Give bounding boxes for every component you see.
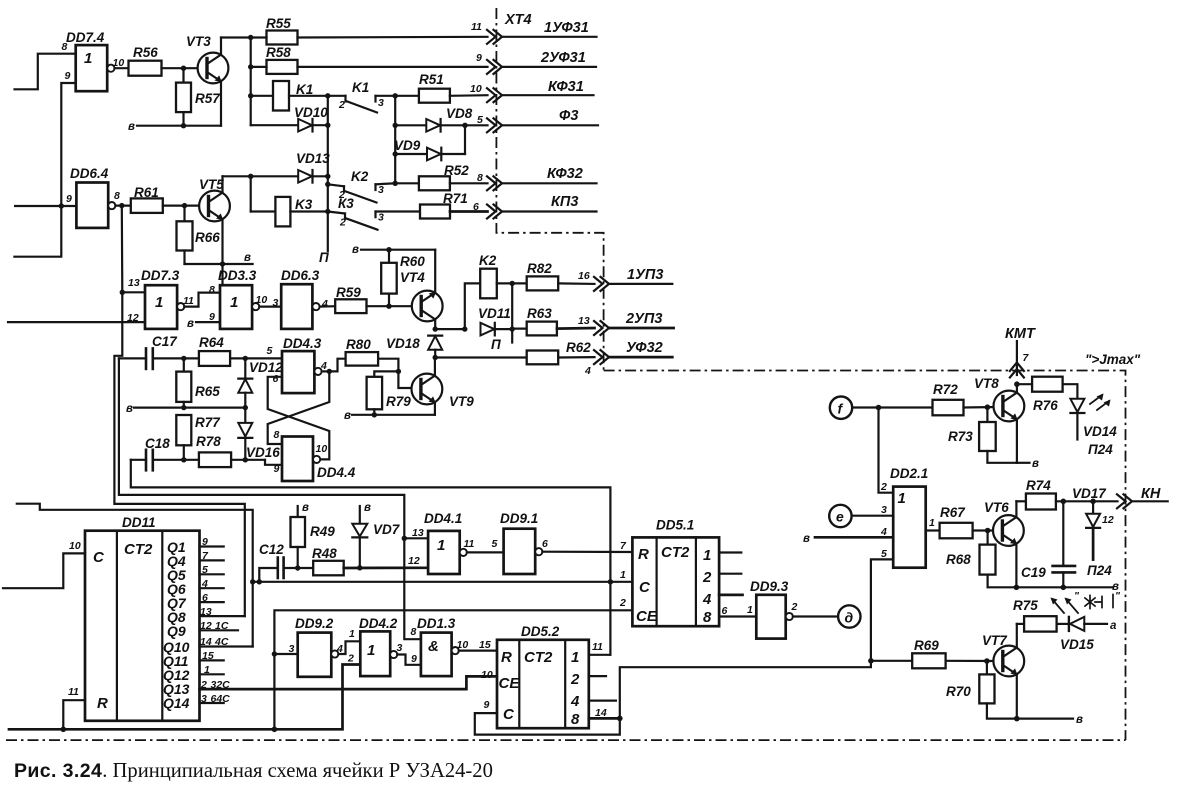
svg-text:C19: C19 [1021, 565, 1046, 580]
svg-text:CE: CE [636, 608, 658, 625]
svg-text:CT2: CT2 [661, 544, 690, 561]
pin stubs DD5.1 outputs 1,2,4 [719, 551, 741, 553]
svg-text:КФ31: КФ31 [548, 79, 584, 95]
wire VT8 emitter to в [1017, 458, 1039, 470]
svg-text:П: П [319, 250, 329, 265]
capacitor C17 [119, 334, 184, 369]
svg-text:12: 12 [408, 555, 420, 567]
svg-text:3: 3 [378, 184, 384, 196]
svg-text:9: 9 [209, 311, 215, 323]
resistor R63 [527, 306, 595, 335]
LED VD15 [1060, 617, 1117, 652]
svg-text:12: 12 [1102, 514, 1114, 526]
svg-text:1: 1 [367, 642, 375, 659]
svg-text:DD9.1: DD9.1 [500, 511, 538, 526]
svg-text:R75: R75 [1013, 598, 1038, 613]
svg-text:1: 1 [84, 50, 92, 67]
wire в mid bias [126, 403, 248, 415]
svg-text:DD7.4: DD7.4 [66, 30, 105, 45]
svg-text:13: 13 [128, 277, 140, 289]
svg-text:R82: R82 [527, 261, 552, 276]
svg-text:6: 6 [473, 201, 479, 213]
wire DD2.1 out to R67 [926, 529, 940, 531]
svg-text:3: 3 [881, 504, 887, 516]
resistor R59 [335, 285, 412, 313]
svg-text:CE: CE [499, 675, 521, 692]
svg-text:1: 1 [898, 490, 906, 507]
svg-text:2: 2 [338, 99, 345, 111]
wire в to DD2.1 pin 4 [803, 533, 893, 545]
svg-text:64C: 64C [211, 693, 231, 705]
svg-text:VD11: VD11 [478, 306, 511, 321]
diode VD10 [251, 105, 329, 132]
svg-text:R: R [97, 695, 108, 712]
gate DD3.3 [209, 268, 267, 329]
node K1 contact / R51 / VD8 [393, 93, 398, 98]
svg-text:DD4.2: DD4.2 [359, 616, 398, 631]
wire DD6.3 out to R59 [320, 305, 336, 308]
resistor R62 [527, 340, 595, 364]
node R80 / R79 / VT9 base [396, 369, 401, 374]
contact K1 [328, 80, 395, 113]
svg-text:2: 2 [347, 653, 354, 665]
gate DD9.2 [289, 616, 344, 677]
svg-text:8: 8 [411, 626, 417, 638]
svg-text:DD5.1: DD5.1 [656, 518, 694, 533]
wire VT7 collector to R75 [1017, 623, 1024, 625]
svg-text:VD10: VD10 [294, 105, 328, 120]
svg-text:1УФ31: 1УФ31 [544, 20, 589, 36]
svg-text:в: в [126, 403, 133, 415]
svg-text:R80: R80 [346, 337, 371, 352]
svg-text:R73: R73 [948, 429, 973, 444]
svg-text:C: C [639, 579, 651, 596]
svg-text:в: в [128, 121, 135, 133]
svg-text:8: 8 [571, 711, 580, 728]
resistor R52 [395, 163, 487, 190]
wire DD6.4 out to R61 [115, 205, 130, 207]
connector XT4 pin 6 chevron [487, 205, 502, 219]
svg-text:VT5: VT5 [199, 177, 224, 192]
transistor VT5 [199, 176, 230, 264]
diode VD11 [478, 306, 512, 335]
connector XT4 pin 10 chevron [487, 88, 502, 102]
node VT8 base / R73 [985, 404, 991, 410]
node R69 tap [868, 658, 874, 664]
wire DD9.2 pin 3 [274, 653, 297, 655]
svg-text:КФ32: КФ32 [547, 166, 583, 182]
resistor R57 [176, 68, 221, 126]
svg-text:13: 13 [412, 527, 424, 539]
resistor R66 [177, 206, 221, 264]
svg-text:1: 1 [703, 547, 711, 564]
svg-text:DD2.1: DD2.1 [890, 466, 928, 481]
wire DD5.2 C input wrap to out8 [475, 713, 620, 735]
resistor R69 [912, 638, 996, 668]
gate DD6.3 [273, 268, 329, 329]
svg-text:2: 2 [702, 569, 712, 586]
node VD11 anode riser [462, 326, 467, 331]
resistor R76 [1017, 377, 1078, 413]
wire Q13 to DD5.2 CE [200, 676, 498, 689]
transistor VT9 [412, 358, 475, 415]
resistor R78 [196, 434, 265, 467]
pin stub DD5.2 out1 to C18 net [589, 654, 611, 656]
svg-text:5: 5 [881, 548, 887, 560]
svg-text:9: 9 [274, 463, 280, 475]
wire to R79 top [374, 371, 398, 376]
wire VT3 collector to bus [221, 36, 251, 38]
resistor R61 [131, 185, 203, 213]
svg-text:VD17: VD17 [1072, 486, 1107, 501]
svg-text:C: C [93, 549, 105, 566]
node C19 tap [1061, 499, 1067, 505]
svg-text:15: 15 [202, 650, 214, 662]
svg-text:П24: П24 [1087, 563, 1112, 578]
resistor R73 [948, 407, 1017, 463]
svg-text:4: 4 [880, 526, 887, 538]
svg-text:3: 3 [201, 693, 207, 705]
wire УФ32 [609, 356, 672, 359]
svg-text:10: 10 [470, 83, 482, 95]
resistor R70 [946, 661, 1073, 719]
svg-text:1: 1 [437, 537, 445, 554]
svg-text:R51: R51 [419, 72, 444, 87]
node VD8 cathode / VD9 [462, 123, 467, 128]
wire emitter bias в [128, 121, 221, 133]
svg-text:9: 9 [476, 52, 482, 64]
svg-text:VD8: VD8 [446, 106, 473, 121]
svg-text:9: 9 [484, 699, 490, 711]
svg-text:9: 9 [65, 70, 71, 82]
wire f to R72 [852, 406, 932, 408]
wire RS cross-coupling B (DD4.3 pin 6 to DD4.4 out) [268, 377, 330, 460]
wire DD11 C input [3, 540, 85, 588]
wire Q10 to stub net [200, 645, 253, 647]
node DD5.1 C tap [608, 579, 613, 584]
diode VD16 [238, 408, 280, 460]
resistor R68 [946, 531, 1113, 588]
node DD7.3 pin13 [120, 290, 125, 295]
svg-text:DD4.3: DD4.3 [283, 336, 322, 351]
svg-text:Q14: Q14 [163, 695, 190, 711]
svg-text:10: 10 [69, 540, 81, 552]
diode VD17 [1086, 501, 1112, 578]
svg-text:1УП3: 1УП3 [627, 267, 663, 283]
wire VT4 emitter to VD11 [435, 328, 465, 330]
svg-text:">Jmax": ">Jmax" [1085, 352, 1141, 367]
transistor VT7 [982, 624, 1024, 719]
transistor VT4 [400, 250, 443, 329]
resistor R67 [940, 505, 996, 538]
svg-text:4: 4 [570, 693, 580, 710]
wire input stub to DD7.4 pin 8 [15, 54, 76, 90]
wire R78 to DD4.4 pin 9 [265, 460, 282, 465]
svg-text:в: в [302, 502, 309, 514]
svg-text:R62: R62 [566, 340, 591, 355]
wire DD4.3 out to R80 [329, 359, 345, 372]
boundary dash-dot bottom [6, 739, 1126, 741]
wire RS cross-coupling A (DD4.3 out to DD4.4 pin 8) [268, 371, 330, 444]
wire DD4.1 pin13 [404, 537, 428, 539]
svg-text:XT4: XT4 [504, 12, 532, 28]
svg-text:R68: R68 [946, 552, 971, 567]
svg-text:VD13: VD13 [296, 151, 330, 166]
node е terminal [829, 505, 851, 527]
connector КН chevron pin 12 [1102, 486, 1168, 526]
svg-text:1: 1 [349, 628, 355, 640]
svg-text:R57: R57 [195, 91, 221, 106]
svg-text:DD3.3: DD3.3 [218, 268, 257, 283]
transistor VT6 [984, 500, 1024, 587]
svg-text:DD6.4: DD6.4 [70, 166, 109, 181]
svg-text:K2: K2 [479, 253, 497, 268]
gate DD4.3 [267, 336, 328, 393]
diode VD18 [386, 336, 442, 358]
svg-text:CT2: CT2 [524, 649, 553, 666]
node R60 bottom / VT4 base [386, 304, 391, 309]
svg-text:11: 11 [592, 641, 603, 653]
node junction DD7.4 p9 / DD6.4 p9 [59, 203, 64, 208]
svg-text:8: 8 [274, 429, 280, 441]
svg-text:8: 8 [477, 172, 483, 184]
wire DD7.4 out to R56 [115, 67, 129, 69]
connector XT4 pin 11 chevron [487, 30, 502, 44]
svg-text:1: 1 [571, 649, 579, 666]
svg-text:УФ32: УФ32 [626, 340, 663, 356]
svg-text:1: 1 [747, 604, 753, 616]
svg-text:3: 3 [273, 297, 279, 309]
contact K2 [325, 169, 395, 203]
node VT7 base / R70 [984, 658, 990, 664]
node VT5 base / R66 [182, 203, 187, 208]
gate DD7.3 [127, 268, 194, 329]
svg-text:12: 12 [127, 312, 139, 324]
resistor R79 [367, 377, 412, 415]
wire stub input to Q10/C12 node [17, 504, 253, 647]
svg-text:15: 15 [479, 639, 491, 651]
svg-text:1: 1 [929, 517, 935, 529]
connector XT4 pin 5 chevron [487, 118, 502, 132]
svg-text:R63: R63 [527, 306, 552, 321]
svg-text:4: 4 [702, 591, 712, 608]
svg-text:Рис. 3.24. Принципиальная схем: Рис. 3.24. Принципиальная схема ячейки Р… [14, 760, 493, 782]
relay coil K1 [251, 81, 328, 111]
svg-text:2УФ31: 2УФ31 [540, 50, 586, 66]
wire CE net to DD5.1 CE [274, 610, 632, 729]
node VD10 bus [325, 123, 330, 128]
node VT7 emitter on в wire [1014, 716, 1020, 722]
svg-text:КП3: КП3 [551, 194, 578, 210]
contact K3 [328, 196, 420, 230]
svg-text:R77: R77 [195, 415, 221, 430]
svg-text:14: 14 [595, 707, 607, 719]
node VD18 / VT9 collector / П wire [433, 355, 438, 360]
svg-text:C: C [503, 706, 515, 723]
svg-text:DD4.4: DD4.4 [317, 465, 356, 480]
gate DD7.4 [62, 30, 125, 91]
node DD9.2 pin3 tap [272, 651, 277, 656]
wire DD9.2 out to DD4.2 pin 1 [338, 641, 360, 654]
svg-text:R59: R59 [336, 285, 361, 300]
svg-text:R65: R65 [195, 384, 220, 399]
svg-text:VT6: VT6 [984, 500, 1009, 515]
wire bus K1 group vertical [250, 38, 252, 126]
LED VD14 [1070, 394, 1117, 458]
svg-text:VD14: VD14 [1083, 424, 1117, 439]
svg-text:R60: R60 [400, 254, 425, 269]
connector XT4 pin 9 chevron [487, 60, 502, 74]
svg-text:DD4.1: DD4.1 [424, 511, 462, 526]
svg-text:в: в [364, 502, 371, 514]
resistor R82 [527, 261, 595, 290]
counter DD11 [85, 515, 200, 721]
svg-text:13: 13 [578, 315, 590, 327]
svg-text:2: 2 [880, 481, 887, 493]
svg-text:R49: R49 [310, 524, 335, 539]
wire Q8 to bus B [200, 615, 245, 617]
wire R63 from VD11 node [512, 328, 527, 330]
svg-text:DD6.3: DD6.3 [281, 268, 320, 283]
transistor VT3 [186, 34, 228, 126]
node DD4.1 pin13 tap [402, 536, 407, 541]
node VD13 bus [325, 174, 330, 179]
wire C17 routing path to DD4.1/DD1.3 [119, 358, 421, 639]
svg-text:K2: K2 [351, 169, 369, 184]
wire C net to DD5.1 C [253, 581, 633, 583]
wire КФ32 [502, 182, 597, 184]
svg-text:в: в [352, 244, 359, 256]
diode VD13 [223, 151, 331, 183]
svg-text:П24: П24 [1088, 442, 1113, 457]
svg-text:4: 4 [321, 298, 328, 310]
wire 2УФ31 [502, 66, 596, 68]
wire R bus bottom [9, 665, 360, 730]
counter DD5.1 [619, 518, 719, 627]
node VT6 emitter on в bus [1014, 585, 1020, 591]
wire DD9.3 out to node д [793, 615, 838, 617]
wire VT6 collector to R74 [1016, 500, 1026, 502]
wire R56 to VT3 base [162, 67, 202, 69]
svg-text:2УП3: 2УП3 [625, 311, 662, 327]
gate DD2.1 [880, 466, 935, 568]
gate DD4.2 [347, 616, 403, 676]
svg-text:VD9: VD9 [394, 138, 421, 153]
connector XT4 pin 8 chevron [487, 176, 502, 190]
svg-text:11: 11 [464, 538, 475, 550]
wire 1УП3 [609, 283, 672, 285]
svg-text:в: в [344, 410, 351, 422]
diode VD9 [394, 125, 465, 160]
diode VD7 [352, 502, 400, 571]
boundary dash-dot XT4 [496, 8, 603, 371]
node K1 bus top [325, 93, 330, 98]
svg-text:R66: R66 [195, 230, 220, 245]
connector pin 4 chevron УФ32 [594, 350, 609, 364]
svg-text:6: 6 [722, 605, 728, 617]
node DD9.2 riser on R bus [272, 727, 278, 733]
wire е to DD2.1 pin 3 [852, 515, 894, 517]
svg-text:5: 5 [202, 564, 208, 576]
wire в stub DD3.3 pin 9 [187, 318, 220, 330]
svg-text:R67: R67 [940, 505, 966, 520]
connector КМТ chevron up [1005, 326, 1036, 378]
resistor R64 [184, 335, 282, 366]
node K2 contact / R52 / VD9 [393, 181, 398, 186]
wire DD5.1 out8 to DD9.3 [719, 604, 756, 617]
photo arrows at R75 [1051, 590, 1122, 613]
wire out8 riser to DD2.1 pin5 / R69 [620, 559, 893, 718]
wire DD1.3 out to DD5.2 R [459, 649, 497, 651]
wire П to R62 [435, 337, 527, 358]
resistor R72 [933, 382, 998, 415]
wire R69 row [871, 660, 912, 662]
node VD13 left branch [248, 174, 253, 179]
svg-text:в: в [1032, 458, 1039, 470]
svg-text:4: 4 [584, 365, 591, 377]
svg-text:2: 2 [570, 671, 580, 688]
svg-text:VD16: VD16 [246, 445, 280, 460]
svg-text:R78: R78 [196, 434, 221, 449]
svg-text:3: 3 [378, 212, 384, 224]
resistor R56 [129, 45, 162, 76]
svg-text:2: 2 [619, 597, 626, 609]
svg-text:Q9: Q9 [167, 623, 186, 639]
svg-text:K3: K3 [295, 197, 313, 212]
node R64 / VD12 / DD4.3 pin5 [243, 356, 248, 361]
svg-text:R76: R76 [1033, 398, 1058, 413]
svg-text:12: 12 [200, 620, 212, 632]
svg-text:C18: C18 [145, 436, 170, 451]
node R49 bottom [295, 565, 300, 570]
svg-text:8: 8 [62, 41, 68, 53]
pin stub DD5.2 out2 [589, 675, 606, 677]
svg-text:8: 8 [209, 284, 215, 296]
svg-text:1: 1 [230, 294, 238, 311]
svg-text:DD9.3: DD9.3 [750, 579, 789, 594]
resistor R58 [251, 45, 488, 74]
transistor VT8 [974, 376, 1024, 463]
node VT3 base / R57 [181, 66, 186, 71]
wire emitter bias в (VT5) [185, 252, 253, 267]
svg-text:1: 1 [155, 294, 163, 311]
svg-text:КН: КН [1141, 486, 1161, 502]
svg-text:11: 11 [471, 21, 482, 33]
node VT6 base / R68 [985, 528, 991, 534]
svg-text:VT3: VT3 [186, 34, 211, 49]
pin stub DD5.2 out8 [589, 717, 620, 720]
svg-text:VD15: VD15 [1060, 637, 1094, 652]
wire input to DD6.4 pin 9 [15, 205, 76, 207]
wire VD8 anode vertical [394, 96, 396, 184]
wire КФ31 [502, 94, 594, 96]
node д terminal [838, 605, 860, 627]
svg-text:VT8: VT8 [974, 376, 999, 391]
wire DD4.2 out to DD1.3 pin 9 [397, 655, 421, 665]
svg-text:2: 2 [791, 601, 798, 613]
wire в to R60 [352, 244, 435, 256]
gate DD1.3 [411, 616, 469, 676]
svg-text:R79: R79 [386, 394, 411, 409]
resistor R48 [312, 546, 428, 575]
svg-text:в: в [244, 252, 251, 264]
node f / DD2.1 pin2 riser [876, 405, 882, 411]
diode VD8 [395, 106, 487, 132]
svg-text:CT2: CT2 [124, 541, 153, 558]
node C17 / R64 / R65 [181, 356, 186, 361]
wire 1УФ31 [502, 36, 597, 38]
svg-text:1C: 1C [215, 620, 229, 632]
